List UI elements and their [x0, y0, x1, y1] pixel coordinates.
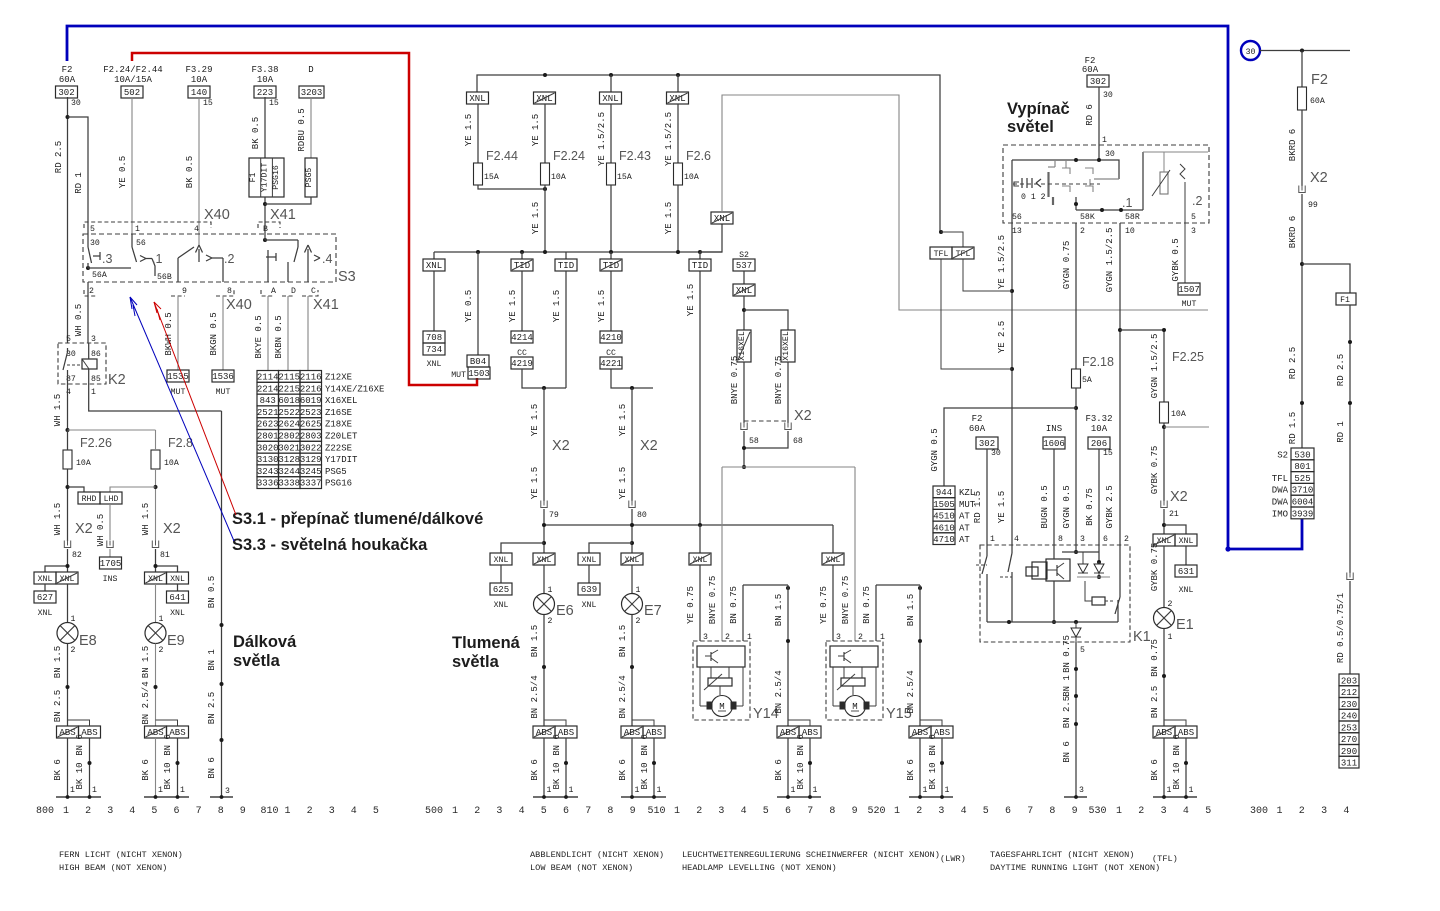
svg-text:S3.1 - přepínač tlumené/dálkov: S3.1 - přepínač tlumené/dálkové	[232, 510, 483, 528]
tag XNL F2.44	[467, 92, 489, 104]
svg-text:YE 1.5/2.5: YE 1.5/2.5	[597, 112, 607, 166]
svg-text:C: C	[311, 287, 316, 296]
wire distribution bus	[434, 250, 722, 254]
svg-text:2116: 2116	[300, 373, 322, 383]
tag box PSG5	[305, 158, 317, 197]
svg-text:5: 5	[373, 806, 379, 817]
wire BK 0.5 from 140 to X40 pin 4	[185, 97, 199, 245]
svg-text:6004: 6004	[1292, 498, 1314, 508]
wire 4221 join E7	[611, 369, 653, 390]
tag 1535 MUT	[167, 370, 189, 397]
relay K2 dashed body	[58, 343, 126, 388]
wire PSG5 branch	[265, 197, 311, 204]
svg-text:4214: 4214	[511, 333, 533, 343]
connector X2 pin 21	[1161, 489, 1188, 519]
tag TID + wire YE 1.5 leveling feed	[686, 252, 711, 525]
wire TFL right to YE	[963, 259, 1012, 291]
svg-text:BN 2.5: BN 2.5	[53, 690, 63, 722]
S3 internal pin labels 30 56	[90, 239, 146, 248]
svg-text:1: 1	[635, 786, 640, 795]
svg-text:8: 8	[218, 806, 224, 817]
wire TFL left to YE	[941, 259, 1012, 369]
fuse F3.32 tag 206	[1085, 414, 1113, 545]
wire BKWH 0.5 to 1535	[164, 296, 178, 370]
svg-text:F2.24/F2.44: F2.24/F2.44	[103, 65, 162, 75]
svg-text:BK 6: BK 6	[530, 759, 540, 781]
svg-text:944: 944	[936, 488, 952, 498]
fuse F2.24/F2.44 tag 502	[103, 65, 162, 98]
svg-text:2115: 2115	[278, 373, 300, 383]
svg-text:5: 5	[66, 335, 71, 344]
svg-text:5: 5	[151, 806, 157, 817]
svg-text:BN 2.5/4: BN 2.5/4	[774, 670, 784, 713]
svg-text:5: 5	[90, 225, 95, 234]
svg-text:9: 9	[182, 287, 187, 296]
svg-text:30: 30	[1246, 48, 1256, 57]
wire BK 6 E7	[618, 738, 640, 797]
wire YE 0.75 to Y14 pin 3 via XNL	[686, 525, 711, 641]
svg-text:.3: .3	[102, 252, 112, 266]
svg-text:537: 537	[736, 261, 752, 271]
lamp E7 low beam	[622, 594, 662, 627]
svg-text:YE 1.5: YE 1.5	[531, 202, 541, 234]
svg-text:F2.43: F2.43	[619, 149, 651, 163]
switch rheostat dimmer	[1152, 152, 1185, 283]
svg-text:3203: 3203	[301, 88, 323, 98]
svg-text:1: 1	[747, 633, 752, 642]
connector ABS pair E7	[621, 726, 665, 738]
connector ABS pair Y15	[909, 726, 953, 738]
svg-text:BN 6: BN 6	[796, 734, 806, 756]
svg-text:BNYE 0.75: BNYE 0.75	[841, 576, 851, 625]
svg-text:10A: 10A	[551, 173, 566, 182]
svg-text:RD 0.5/0.75/1: RD 0.5/0.75/1	[1336, 593, 1346, 663]
svg-text:30: 30	[90, 239, 100, 248]
svg-text:BK 10: BK 10	[75, 762, 85, 789]
switch S2 light switch dashed body	[1003, 145, 1209, 223]
svg-text:3: 3	[1321, 806, 1327, 817]
wire BN Y14 to ABS	[774, 585, 790, 726]
tag XNL/XNL E1	[1153, 534, 1197, 546]
svg-text:4: 4	[519, 806, 525, 817]
caption low beam	[530, 850, 664, 873]
svg-text:GYGN 0.5: GYGN 0.5	[1062, 485, 1072, 528]
svg-text:XNL: XNL	[148, 575, 163, 584]
wire bus to XNL strut	[700, 224, 722, 252]
svg-text:1: 1	[91, 388, 96, 397]
svg-text:3: 3	[1079, 786, 1084, 795]
svg-text:56A: 56A	[92, 271, 107, 280]
svg-text:2: 2	[71, 646, 76, 655]
svg-text:BN 1.5: BN 1.5	[530, 625, 540, 657]
svg-text:světla: světla	[233, 652, 281, 670]
svg-text:60A: 60A	[969, 424, 986, 434]
caption headlamp levelling	[682, 850, 966, 873]
svg-text:BN 6: BN 6	[1062, 741, 1072, 763]
wire BKGN 0.5 to 1536	[209, 296, 223, 370]
node TFL split	[939, 230, 963, 247]
S3 switch .2 flash contact	[178, 245, 234, 282]
svg-text:140: 140	[191, 88, 207, 98]
K1 diode rail	[1062, 545, 1101, 564]
engine variant table 2114..PSG16	[257, 371, 385, 489]
svg-text:RD 1.5: RD 1.5	[1288, 412, 1298, 444]
label Tlumena svetla	[452, 634, 521, 671]
svg-text:8: 8	[1058, 535, 1063, 544]
connector X2 + wire RD 0.5/0.75/1	[1336, 573, 1353, 675]
tag stack 944 KZL / 1505 MUT / 4510 4610 4710 AT	[933, 486, 976, 545]
tag XNL struck E6	[533, 553, 555, 565]
svg-text:7: 7	[196, 806, 202, 817]
svg-text:BN 6: BN 6	[207, 757, 217, 779]
fuse F2.6 10A	[674, 149, 712, 185]
svg-text:1: 1	[674, 806, 680, 817]
switch internal left leg to 56	[1011, 160, 1013, 223]
tag stack S2 530 / 801 / TFL 525 / DWA 3710 / DWA 6004 / IMO 3939	[1272, 448, 1314, 519]
svg-text:510: 510	[647, 806, 665, 817]
svg-text:BK 6: BK 6	[1150, 759, 1160, 781]
svg-text:3: 3	[718, 806, 724, 817]
svg-text:XNL: XNL	[60, 575, 75, 584]
svg-text:BN 2.5: BN 2.5	[207, 692, 217, 724]
svg-text:60A: 60A	[1310, 97, 1325, 106]
wire to lamp E9 pin1	[156, 584, 164, 624]
svg-text:D: D	[291, 287, 296, 296]
svg-text:3710: 3710	[1292, 486, 1314, 496]
svg-text:9: 9	[630, 806, 636, 817]
svg-text:8: 8	[607, 806, 613, 817]
svg-text:3022: 3022	[300, 443, 322, 453]
wire BKYE 0.5	[254, 296, 268, 370]
K1 bottom rail	[987, 620, 1118, 624]
wire BN below E6	[530, 615, 546, 727]
svg-text:BN 1: BN 1	[1062, 675, 1072, 697]
svg-text:4710: 4710	[933, 535, 955, 545]
svg-text:E8: E8	[79, 633, 97, 649]
wire YE 1.5 to F2.24	[531, 104, 545, 163]
svg-text:GYBK 2.5: GYBK 2.5	[1105, 485, 1115, 528]
connector ABS pair E1	[1153, 726, 1197, 738]
svg-text:XNL: XNL	[1179, 537, 1194, 546]
tag box F1/Y17DIT/PSG16	[249, 158, 284, 197]
svg-text:Z12XE: Z12XE	[325, 373, 352, 383]
tag XNL F2.43	[600, 75, 622, 104]
svg-text:3245: 3245	[300, 467, 322, 477]
svg-text:639: 639	[581, 585, 597, 595]
switch pin names 56 58K 58R 5	[1012, 213, 1196, 222]
wire BN below E8	[53, 644, 70, 727]
svg-text:MUT: MUT	[1182, 300, 1197, 309]
K1 diode 2	[1094, 562, 1104, 579]
wire BK 10 E6	[552, 734, 574, 797]
svg-text:1: 1	[945, 786, 950, 795]
svg-text:HIGH BEAM (NOT XENON): HIGH BEAM (NOT XENON)	[59, 863, 167, 873]
svg-text:4: 4	[194, 225, 199, 234]
S3 switch .4 headlamp flash	[263, 222, 332, 282]
svg-text:AT: AT	[959, 523, 970, 533]
svg-text:2801: 2801	[257, 432, 279, 442]
svg-text:RD 6: RD 6	[1085, 104, 1095, 126]
svg-text:4210: 4210	[600, 333, 622, 343]
svg-text:625: 625	[493, 585, 509, 595]
svg-text:81: 81	[160, 551, 170, 560]
svg-text:WH 1.5: WH 1.5	[141, 503, 151, 535]
svg-text:10A: 10A	[1171, 410, 1186, 419]
svg-text:YE 1.5: YE 1.5	[531, 114, 541, 146]
svg-text:5A: 5A	[1082, 376, 1092, 385]
svg-text:RD 1.5: RD 1.5	[973, 491, 983, 523]
svg-text:206: 206	[1091, 439, 1107, 449]
node terminal 30	[1241, 41, 1260, 60]
svg-text:YE 1.5: YE 1.5	[464, 114, 474, 146]
connector X2 pin 82	[64, 521, 92, 560]
svg-text:A: A	[271, 287, 276, 296]
svg-text:BKGN 0.5: BKGN 0.5	[209, 312, 219, 355]
svg-text:BK 10: BK 10	[163, 762, 173, 789]
svg-text:627: 627	[37, 593, 53, 603]
svg-text:RD 2.5: RD 2.5	[54, 141, 64, 173]
K1 contact from pin 2	[1115, 545, 1120, 622]
svg-text:3: 3	[91, 335, 96, 344]
svg-text:.1: .1	[152, 252, 162, 266]
svg-text:X2: X2	[640, 438, 658, 454]
svg-text:DAYTIME RUNNING LIGHT (NOT XEN: DAYTIME RUNNING LIGHT (NOT XENON)	[990, 863, 1160, 873]
svg-text:GYGN 0.5: GYGN 0.5	[930, 428, 940, 471]
fuse F2 60A right	[1298, 51, 1328, 111]
svg-text:GYBK 0.75: GYBK 0.75	[1150, 543, 1160, 592]
svg-text:TFL: TFL	[934, 250, 949, 259]
svg-text:223: 223	[257, 88, 273, 98]
svg-text:XNL: XNL	[602, 94, 618, 104]
ground pin 800-8	[210, 787, 233, 799]
svg-text:YE 1.5: YE 1.5	[997, 491, 1007, 523]
wire YE 0.5 from 502 to S3 pin 1	[118, 97, 132, 234]
svg-text:5: 5	[763, 806, 769, 817]
svg-text:XNL: XNL	[38, 609, 53, 618]
svg-text:BN 1.5: BN 1.5	[906, 594, 916, 626]
svg-text:YE 1.5: YE 1.5	[664, 202, 674, 234]
svg-text:230: 230	[1341, 700, 1357, 710]
svg-text:7: 7	[1027, 806, 1033, 817]
svg-text:INS: INS	[103, 575, 118, 584]
wire E7 feed through X2 pin 80	[618, 388, 658, 553]
svg-text:YE 1.5: YE 1.5	[618, 404, 628, 436]
K1 output diode	[1071, 622, 1081, 642]
wire leveling bus	[722, 466, 855, 468]
svg-text:YE 0.75: YE 0.75	[819, 586, 829, 624]
svg-text:BK 0.5: BK 0.5	[185, 156, 195, 188]
svg-text:XNL: XNL	[582, 601, 597, 610]
tag 1507 MUT	[1178, 283, 1200, 309]
K1 pin numbers	[990, 535, 1129, 544]
svg-text:BN 0.5: BN 0.5	[207, 576, 217, 608]
wire BNYE to Y14 pin 2	[708, 467, 722, 641]
svg-text:58: 58	[749, 437, 759, 446]
wire tick ABS E6	[544, 720, 566, 726]
svg-text:4: 4	[66, 388, 71, 397]
svg-text:10A: 10A	[164, 459, 179, 468]
arrow blue to S3.3	[130, 297, 234, 541]
connector X40 lower bracket pins 2 9 8	[84, 287, 252, 313]
switch internal label 30	[1105, 150, 1115, 159]
connector X40 upper bracket pins 5 1 4	[84, 207, 230, 234]
connector X41 lower bracket pins A D C	[261, 287, 339, 313]
wire 537 split	[742, 296, 788, 330]
svg-text:82: 82	[72, 551, 82, 560]
svg-text:1503: 1503	[468, 369, 490, 379]
ground pins 800-5 800-6	[144, 795, 189, 799]
svg-text:3336: 3336	[257, 479, 279, 489]
wire XNL supply bus	[477, 73, 940, 232]
relay K1 dashed body	[980, 545, 1151, 645]
svg-text:3020: 3020	[257, 443, 279, 453]
svg-text:BN 6: BN 6	[163, 734, 173, 756]
grid track 300	[1250, 806, 1349, 817]
svg-text:2: 2	[1168, 600, 1173, 609]
svg-text:1: 1	[880, 633, 885, 642]
wire WH 0.5 S3 pin2 to K2 pin 3	[74, 282, 88, 343]
svg-text:0 1 2: 0 1 2	[1021, 193, 1046, 202]
K1 pin 8 through transistor	[1052, 545, 1056, 624]
svg-text:6018: 6018	[278, 396, 300, 406]
wire tick ABS E7	[632, 720, 654, 726]
fuse F2 tag 302 K1 feed	[969, 414, 1001, 545]
wire GYGN 0.5 to K1 pin 3	[1062, 388, 1078, 545]
wire RD 2.5 from 302 to K2 pin 5	[54, 97, 70, 343]
svg-text:2521: 2521	[257, 408, 279, 418]
svg-text:212: 212	[1341, 688, 1357, 698]
wire gray loop to switch area	[722, 95, 1208, 310]
svg-text:WH 1.5: WH 1.5	[53, 503, 63, 535]
actuator Y14 headlamp leveling motor	[693, 633, 779, 722]
wire RD 1 to S3 pin 5	[68, 117, 89, 234]
svg-text:1606: 1606	[1043, 439, 1065, 449]
switch S3 dashed body	[83, 234, 356, 285]
svg-text:BN 6: BN 6	[640, 734, 650, 756]
svg-text:843: 843	[260, 396, 276, 406]
svg-text:1: 1	[180, 786, 185, 795]
svg-text:X2: X2	[552, 438, 570, 454]
svg-text:Z22SE: Z22SE	[325, 443, 352, 453]
svg-text:BN 2.5/4: BN 2.5/4	[906, 670, 916, 713]
svg-text:F2: F2	[62, 65, 73, 75]
switch detent symbol 0 1 2	[1014, 178, 1046, 202]
svg-text:RD 1: RD 1	[1336, 421, 1346, 443]
svg-text:6: 6	[1103, 535, 1108, 544]
svg-text:YE 0.75: YE 0.75	[686, 586, 696, 624]
svg-text:3: 3	[329, 806, 335, 817]
svg-text:GYBK 0.75: GYBK 0.75	[1150, 446, 1160, 495]
svg-text:K1: K1	[1133, 629, 1151, 645]
svg-text:BKYE 0.5: BKYE 0.5	[254, 315, 264, 358]
svg-text:ABBLENDLICHT (NICHT XENON): ABBLENDLICHT (NICHT XENON)	[530, 850, 664, 860]
svg-text:Vypínač: Vypínač	[1007, 100, 1070, 118]
svg-text:BN 1.5: BN 1.5	[53, 646, 63, 678]
svg-text:E9: E9	[167, 633, 185, 649]
svg-text:10A: 10A	[191, 75, 208, 85]
svg-text:1: 1	[990, 535, 995, 544]
svg-text:2803: 2803	[300, 432, 322, 442]
svg-text:2522: 2522	[278, 408, 300, 418]
wire BN K1 pin 5 to ground	[1062, 635, 1085, 797]
svg-text:4: 4	[741, 806, 747, 817]
wire GYGN 0.75 switch 58K	[1062, 223, 1076, 369]
svg-text:F3.32: F3.32	[1085, 414, 1112, 424]
connector ABS pair E9	[145, 726, 189, 738]
svg-text:XNL: XNL	[170, 575, 185, 584]
tag 641 XNL	[167, 584, 189, 618]
wire to lamp E6	[544, 565, 553, 595]
K1 transistor	[1046, 559, 1070, 581]
svg-text:2215: 2215	[278, 384, 300, 394]
wire E6 feed through X2 pin 79	[530, 388, 570, 553]
wire GYGN 0.5 to 944 tags	[930, 408, 1076, 486]
switch linkage dashed	[1013, 183, 1100, 185]
svg-text:LHD: LHD	[104, 495, 119, 504]
svg-text:F2.25: F2.25	[1172, 350, 1204, 364]
lamp E1 daytime running light	[1154, 608, 1194, 643]
K1 relay coil	[1085, 581, 1115, 605]
svg-text:BK 10: BK 10	[640, 762, 650, 789]
svg-text:810: 810	[260, 806, 278, 817]
coding plug RHD/LHD	[78, 492, 122, 504]
svg-text:BN 1.5: BN 1.5	[774, 594, 784, 626]
svg-text:7: 7	[585, 806, 591, 817]
wire red bus S3.1	[132, 53, 477, 385]
svg-text:Dálková: Dálková	[233, 633, 297, 651]
wire WH 1.5 K2 87 down	[53, 384, 68, 430]
wire tick ABS Y14	[788, 720, 810, 726]
tag S2 537 XNL	[733, 251, 755, 296]
wire BN ground run col 800-8	[207, 411, 224, 797]
grid track 500/510	[425, 806, 858, 817]
wire BN Y15 to ABS	[906, 585, 922, 726]
wire YE 0.75 to Y15 pin 3 via XNL	[819, 525, 844, 641]
svg-text:6: 6	[1005, 806, 1011, 817]
svg-text:60A: 60A	[59, 75, 76, 85]
connector X2 pin 99	[1299, 170, 1328, 210]
svg-text:21: 21	[1169, 510, 1179, 519]
svg-text:RD 2.5: RD 2.5	[1336, 354, 1346, 386]
svg-text:56: 56	[1012, 213, 1022, 222]
wire to XNL tags E1	[1162, 509, 1186, 534]
wire BK 10 Y14	[796, 734, 818, 797]
svg-text:2: 2	[858, 633, 863, 642]
svg-text:7: 7	[807, 806, 813, 817]
wire RD 6 to switch pin 1	[1085, 87, 1107, 145]
svg-text:302: 302	[979, 439, 995, 449]
svg-text:DWA: DWA	[1272, 486, 1289, 496]
svg-text:PSG5: PSG5	[325, 467, 347, 477]
svg-text:4: 4	[351, 806, 357, 817]
wire to lamp E7	[632, 565, 641, 595]
svg-text:8: 8	[829, 806, 835, 817]
switch section .2	[1192, 194, 1202, 208]
svg-text:3021: 3021	[278, 443, 300, 453]
svg-text:79: 79	[549, 511, 559, 520]
svg-text:6: 6	[173, 806, 179, 817]
wire BN below E1	[1150, 629, 1166, 727]
svg-text:2214: 2214	[257, 384, 279, 394]
wire YE 1.5/2.5 to F2.6	[664, 104, 678, 166]
K2 contact 30-87	[63, 348, 82, 384]
svg-text:1: 1	[63, 806, 69, 817]
svg-text:2: 2	[1299, 806, 1305, 817]
wire YE 1.5 F2.24 out	[531, 185, 545, 252]
svg-text:1: 1	[452, 806, 458, 817]
svg-text:.2: .2	[1192, 194, 1202, 208]
svg-text:S3.3 - světelná houkačka: S3.3 - světelná houkačka	[232, 536, 428, 554]
